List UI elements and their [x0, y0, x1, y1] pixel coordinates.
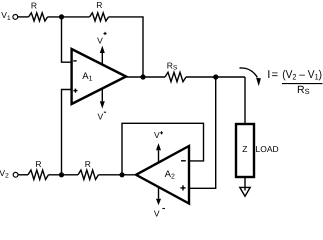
current arrow (curved) — [240, 68, 261, 86]
wire: A1 output to RS — [126, 76, 165, 78]
wire: RS to load corner — [186, 76, 245, 78]
wire: R3 to R4 through bottom node — [49, 174, 79, 176]
wire: A2 feedback loop (node X up, across, down to inverting input) — [122, 123, 204, 175]
input terminal V2 — [0, 168, 18, 180]
resistor R3 (bottom R) — [28, 159, 49, 180]
pin plus (A1) — [73, 90, 77, 92]
wire: V2 terminal to R3 — [18, 174, 28, 176]
svg-text:R: R — [31, 1, 37, 11]
load Z — [236, 124, 279, 177]
svg-text:R: R — [85, 159, 91, 169]
svg-text:V: V — [98, 111, 104, 121]
wire: node B up to A1 non-inverting input — [62, 90, 71, 175]
svg-text:R: R — [96, 0, 102, 10]
node Y: RS output / buffer sense junction — [213, 74, 218, 79]
wire: V1 terminal to R1 — [18, 16, 29, 18]
svg-text:LOAD: LOAD — [256, 144, 279, 154]
power V+ arrow (A1) — [97, 32, 107, 65]
node X: A2 output junction — [119, 172, 124, 177]
wire: node Y down to A2 non-inverting input — [189, 77, 216, 188]
resistor R1 — [29, 1, 48, 21]
svg-text:I: I — [267, 69, 270, 81]
wire: top junction down to A1 inverting input — [62, 17, 71, 62]
svg-text:V: V — [154, 209, 160, 219]
power V+ arrow (A2) — [154, 130, 163, 163]
wire: load to ground — [244, 177, 246, 191]
node: A1 output / feedback junction — [140, 74, 145, 79]
node: top junction (R1/R2/A1 inverting input) — [59, 14, 64, 19]
wire: R1 to R2 through top node — [48, 16, 90, 18]
svg-text:=: = — [272, 69, 279, 81]
input terminal V1 — [1, 10, 17, 22]
svg-text:R: R — [35, 159, 41, 169]
wire: node Y down the right side to load — [244, 77, 246, 124]
wire: R2 to feedback corner down to A1 output node — [109, 17, 143, 77]
pin minus (A2) — [181, 160, 186, 162]
op-amp A2 — [136, 146, 189, 204]
power V- arrow (A1) — [98, 89, 107, 122]
formula I = (V2 - V1)/RS — [267, 69, 322, 96]
svg-text:V: V — [154, 130, 160, 140]
resistor RS — [165, 60, 186, 81]
resistor R4 (bottom R, second) — [78, 159, 99, 180]
power V- arrow (A2) — [154, 187, 165, 219]
svg-text:Z: Z — [242, 144, 247, 154]
resistor R2 (feedback) — [90, 0, 109, 21]
op-amp A1 — [72, 49, 126, 104]
svg-text:V: V — [97, 35, 103, 45]
ground — [240, 187, 250, 196]
node B: bottom junction to A1 non-inverting input — [59, 172, 64, 177]
pin minus (A1) — [73, 60, 76, 62]
pin plus (A2) — [180, 187, 185, 189]
wire: R4 to A2 output apex — [99, 174, 137, 176]
